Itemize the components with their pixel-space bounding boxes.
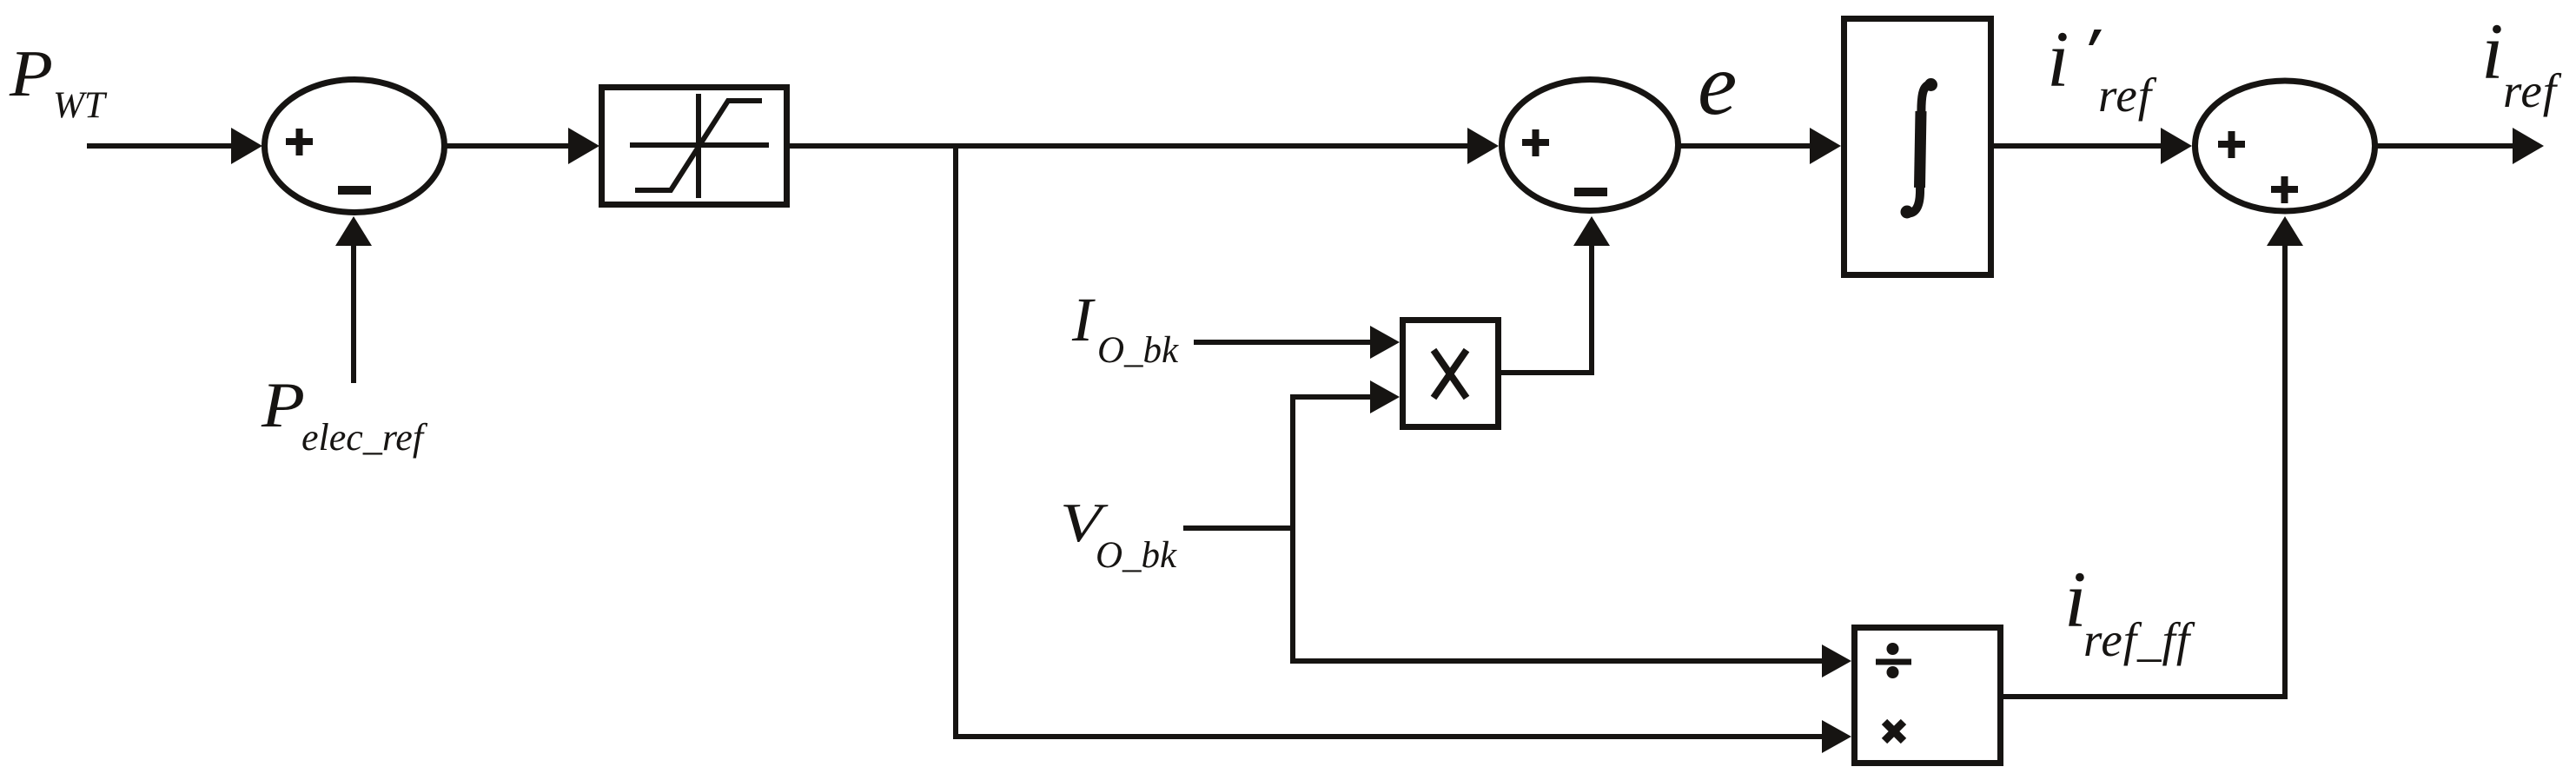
wire V_O_bk up branch to multiplier <box>1293 397 1371 531</box>
svg-text:ref_ff: ref_ff <box>2083 613 2195 666</box>
input label I_O_bk <box>1071 285 1179 371</box>
arrowhead multiplier into S2 <box>1573 216 1610 246</box>
arrowhead into integrator <box>1810 128 1841 164</box>
svg-text:ref: ref <box>2503 64 2562 117</box>
arrowhead output i_ref <box>2513 128 2544 164</box>
arrowhead V_O_bk into divider <box>1822 644 1851 678</box>
node branch junction N1 riser <box>953 143 958 739</box>
saturation block U1 <box>602 88 787 205</box>
plus sign S3 bottom <box>2271 176 2298 203</box>
wire multiplier output to S2 <box>1501 246 1592 373</box>
arrowhead P_elec_ref into S1 <box>335 216 372 246</box>
minus sign S2 <box>1574 188 1607 196</box>
wire P_elec_ref riser <box>351 244 356 383</box>
svg-text:WT: WT <box>53 85 108 126</box>
svg-text:P: P <box>9 37 53 110</box>
svg-text:i: i <box>2047 15 2069 103</box>
svg-text:elec_ref: elec_ref <box>301 416 428 459</box>
divide symbol <box>1876 643 1911 678</box>
integrator block U2 <box>1844 19 1991 275</box>
plus sign S1 <box>286 129 313 155</box>
wire saturation to summing junction S2 <box>790 143 1468 149</box>
arrowhead into saturation block <box>568 128 599 164</box>
wire V_O_bk down branch to divider <box>1293 526 1824 661</box>
arrowhead into S3 <box>2161 128 2192 164</box>
wire S1 to saturation block <box>445 143 570 149</box>
wire P_WT input <box>87 143 233 149</box>
output label i_ref <box>2481 7 2562 117</box>
svg-text:O_bk: O_bk <box>1097 330 1179 371</box>
summing junction S2 <box>1502 80 1679 211</box>
input label P_WT <box>9 37 108 126</box>
svg-text:P: P <box>261 370 305 441</box>
multiplier block U3 <box>1403 321 1499 427</box>
label i_ref_ff <box>2064 555 2195 666</box>
wire branch N1 to divider <box>953 734 1824 739</box>
integral symbol <box>1901 78 1938 219</box>
saturation characteristic symbol <box>630 94 769 198</box>
summing junction S1 <box>265 80 445 213</box>
arrowhead V_O_bk into multiplier <box>1370 380 1400 413</box>
arrowhead into summing junction S1 <box>231 128 262 164</box>
arrowhead divider into S3 <box>2267 216 2303 246</box>
plus sign S3 left <box>2218 131 2245 158</box>
wire S3 output <box>2377 143 2513 149</box>
input label P_elec_ref <box>261 370 428 459</box>
arrowhead branch into divider <box>1822 720 1851 753</box>
svg-text:ref: ref <box>2098 69 2157 122</box>
label i'_ref <box>2047 15 2157 122</box>
arrowhead into S2 <box>1467 128 1499 164</box>
svg-text:I: I <box>1071 285 1096 354</box>
multiply symbol X <box>1434 350 1467 398</box>
arrowhead I_O_bk into multiplier <box>1370 326 1400 359</box>
svg-text:O_bk: O_bk <box>1096 535 1177 576</box>
multiply symbol in divider <box>1884 722 1904 741</box>
divider block U4 <box>1855 628 2001 763</box>
input label V_O_bk <box>1060 492 1177 576</box>
svg-text:i: i <box>2481 7 2504 96</box>
wire divider output to S3 <box>2003 246 2285 697</box>
svg-text:e: e <box>1698 36 1737 134</box>
wire I_O_bk to multiplier <box>1194 340 1371 345</box>
wire S2 to integrator <box>1679 143 1812 149</box>
wire V_O_bk stub <box>1183 526 1293 531</box>
wire integrator to summing junction S3 <box>1994 143 2163 149</box>
summing junction S3 <box>2195 81 2375 211</box>
minus sign S1 <box>338 186 371 195</box>
plus sign S2 <box>1522 129 1549 156</box>
